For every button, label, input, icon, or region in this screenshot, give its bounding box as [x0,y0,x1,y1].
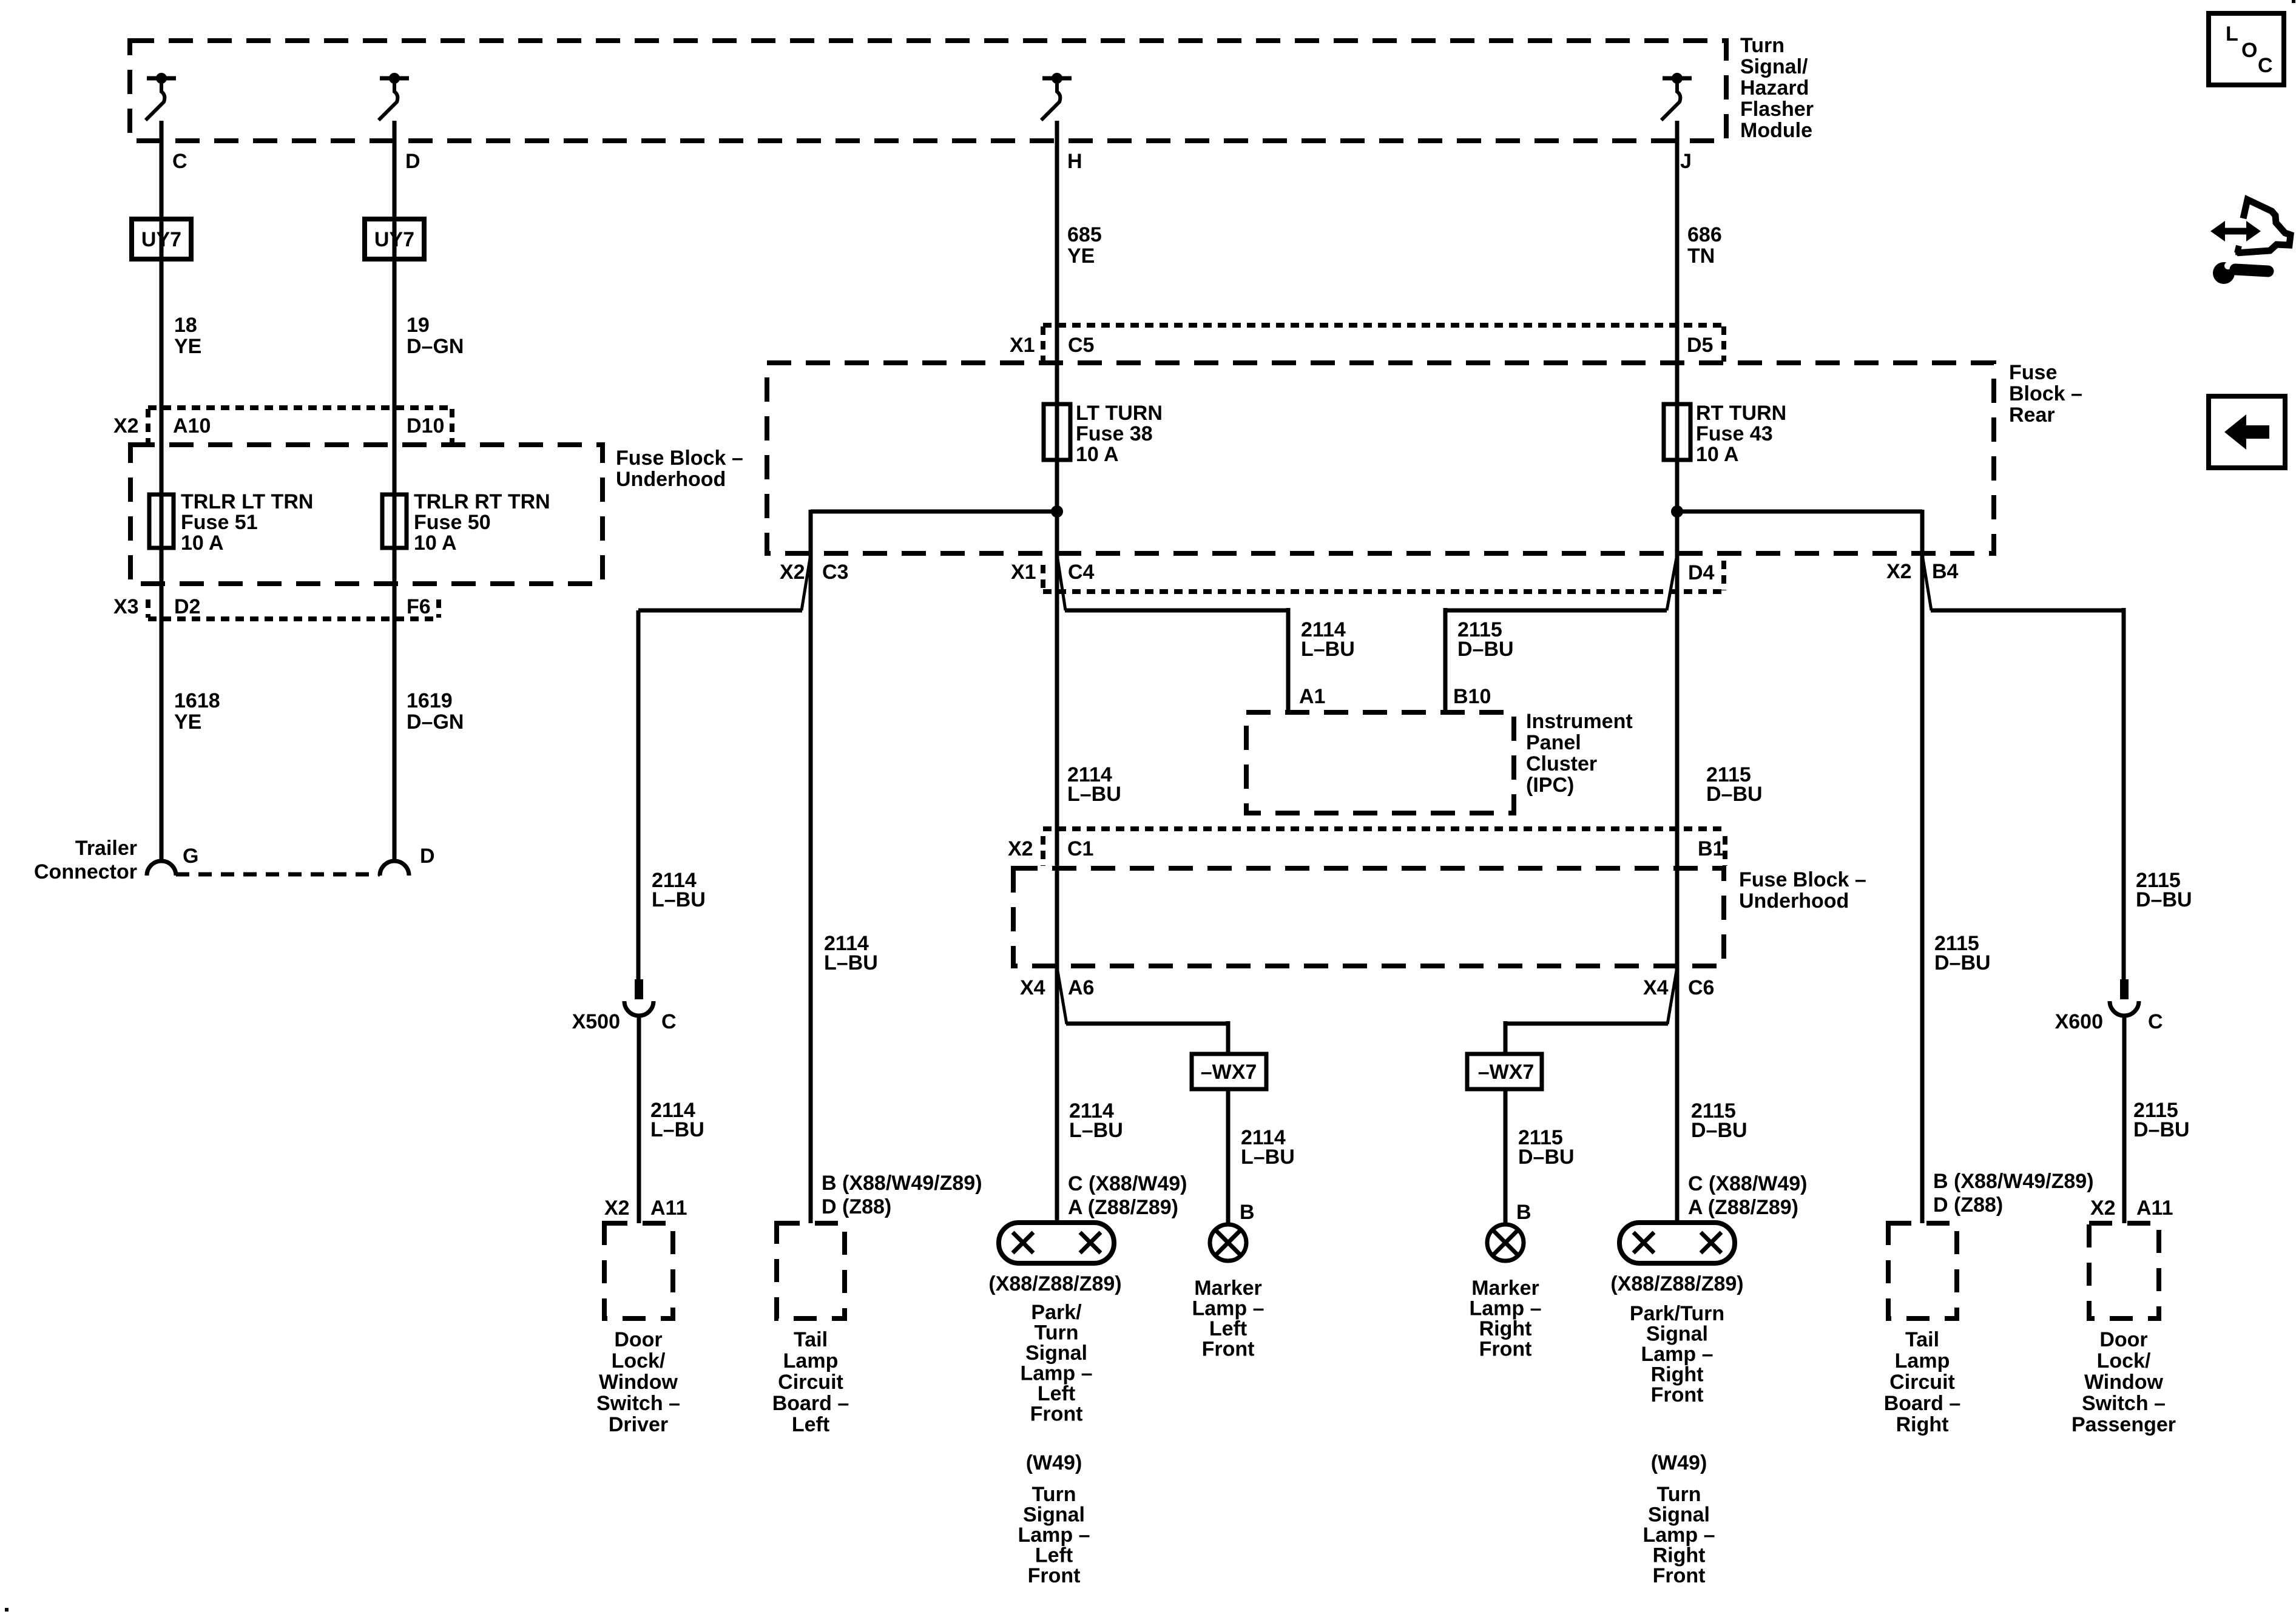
svg-text:Panel: Panel [1526,731,1581,754]
svg-text:L–BU: L–BU [1067,783,1121,806]
svg-text:Module: Module [1740,119,1812,142]
svg-text:YE: YE [174,335,201,358]
svg-text:C5: C5 [1068,334,1094,357]
svg-text:C (X88/W49): C (X88/W49) [1688,1172,1808,1195]
svg-text:Tail: Tail [794,1328,828,1351]
svg-text:Window: Window [2084,1371,2164,1394]
wire 2114 L-BU marker branch [1066,1022,1228,1026]
junction on wire 2115 [1671,505,1683,518]
svg-text:X3: X3 [113,595,139,618]
svg-text:Cluster: Cluster [1526,752,1597,775]
svg-text:F6: F6 [407,595,431,618]
svg-text:A11: A11 [650,1197,687,1220]
svg-text:B: B [1240,1201,1255,1224]
svg-text:Underhood: Underhood [1739,890,1849,913]
svg-text:D (Z88): D (Z88) [822,1195,891,1218]
svg-text:19: 19 [407,314,430,337]
Marker Lamp - Left Front symbol [1210,1224,1246,1261]
svg-text:C3: C3 [822,561,848,584]
svg-text:B10: B10 [1453,685,1491,708]
svg-text:L–BU: L–BU [1301,638,1355,661]
wire 2114 below X500 [637,1014,641,1223]
svg-text:Park/Turn: Park/Turn [1630,1302,1724,1325]
connector X2 row (A10 D10) [148,405,452,410]
wire 18 YE from pin C [160,121,164,861]
svg-text:YE: YE [174,711,201,734]
svg-text:G: G [183,845,198,868]
connector X1 pin D4 pass-through [1667,555,1677,610]
svg-text:D–BU: D–BU [2136,888,2192,911]
flasher module switch (pin C) [147,76,176,81]
svg-text:Rear: Rear [2009,403,2055,427]
svg-text:Signal: Signal [1025,1342,1087,1365]
svg-text:Door: Door [2099,1328,2147,1351]
svg-text:Board –: Board – [1884,1392,1961,1415]
svg-text:D5: D5 [1687,334,1713,357]
svg-text:Switch –: Switch – [2082,1392,2166,1415]
svg-text:Left: Left [1038,1382,1075,1405]
svg-text:D–BU: D–BU [2133,1118,2190,1141]
svg-text:X500: X500 [572,1010,620,1033]
svg-text:X2: X2 [2090,1197,2116,1220]
connector X4 pin C6 pass-through [1667,967,1677,1024]
option box UY7 (left) [132,219,191,259]
svg-text:Fuse 43: Fuse 43 [1696,422,1773,445]
svg-text:X4: X4 [1643,976,1669,999]
svg-text:Fuse 51: Fuse 51 [181,511,258,534]
svg-text:Block –: Block – [2009,382,2082,405]
connector X3 row (D2 F6) [148,616,439,621]
svg-text:A6: A6 [1068,976,1094,999]
Marker Lamp - Right Front symbol [1487,1224,1524,1261]
connector face / service icon [2210,221,2261,241]
svg-text:C4: C4 [1068,561,1095,584]
svg-text:D–BU: D–BU [1706,783,1763,806]
svg-text:D10: D10 [407,414,444,437]
svg-text:X600: X600 [2055,1010,2103,1033]
svg-text:Turn: Turn [1032,1483,1076,1506]
svg-text:C: C [661,1010,677,1033]
wire 685 YE from pin H [1055,121,1059,1223]
svg-text:Circuit: Circuit [1889,1371,1955,1394]
inline connector X600 [2120,979,2129,999]
svg-text:Instrument: Instrument [1526,710,1633,733]
svg-text:Lamp: Lamp [783,1349,839,1372]
svg-text:LT TURN: LT TURN [1076,402,1163,425]
wire 2115 D-BU to X600 [1931,609,2124,613]
svg-text:B (X88/W49/Z89): B (X88/W49/Z89) [1933,1170,2094,1193]
trailer connector cavity G symbol [147,861,176,876]
wire 19 D-GN from pin D [393,121,397,861]
svg-text:10 A: 10 A [1076,443,1119,466]
wire 686 TN from pin J [1675,121,1680,1223]
svg-text:A10: A10 [173,414,211,437]
svg-text:YE: YE [1067,245,1095,268]
svg-text:UY7: UY7 [374,228,414,251]
svg-text:X1: X1 [1011,561,1036,584]
svg-text:D–BU: D–BU [1457,638,1514,661]
svg-text:A (Z88/Z89): A (Z88/Z89) [1688,1196,1798,1219]
svg-text:(W49): (W49) [1651,1451,1707,1474]
svg-text:Flasher: Flasher [1740,98,1814,121]
svg-text:Right: Right [1651,1363,1704,1386]
svg-text:UY7: UY7 [141,228,181,251]
svg-text:Signal/: Signal/ [1740,55,1808,78]
svg-text:TRLR RT TRN: TRLR RT TRN [414,490,550,513]
svg-text:X4: X4 [1020,976,1045,999]
svg-text:686: 686 [1687,223,1722,246]
wire 2115 D-BU to IPC B10 [1445,609,1667,613]
svg-text:B (X88/W49/Z89): B (X88/W49/Z89) [822,1172,982,1195]
page mark top right [2292,0,2295,3]
Turn Signal/Hazard Flasher Module box [130,41,1726,141]
svg-text:Fuse 50: Fuse 50 [414,511,491,534]
connector X2 pin B4 pass-through [1922,555,1931,610]
svg-text:Right: Right [1479,1317,1532,1340]
fuse TRLR LT TRN Fuse 51 [149,495,174,548]
svg-text:TN: TN [1687,245,1715,268]
svg-text:Front: Front [1202,1338,1255,1361]
wire 2114 L-BU to X500 [638,609,802,613]
svg-text:X1: X1 [1010,334,1035,357]
svg-text:L: L [2226,22,2238,46]
svg-text:10 A: 10 A [181,532,224,555]
Fuse Block - Underhood box (left) [130,445,603,584]
svg-text:Door: Door [614,1328,662,1351]
svg-text:Board –: Board – [772,1392,849,1415]
svg-text:Tail: Tail [1905,1328,1939,1351]
fuse LT TURN Fuse 38 [1044,404,1070,460]
fuse TRLR RT TRN Fuse 50 [382,495,407,548]
svg-text:Right: Right [1896,1413,1949,1436]
flasher module switch (pin D) [380,76,409,81]
option box UY7 (right) [365,219,424,259]
connector X1 pin C4 pass-through [1057,555,1065,610]
svg-text:Signal: Signal [1023,1504,1085,1527]
svg-text:Right: Right [1653,1544,1706,1567]
svg-text:L–BU: L–BU [824,951,878,974]
svg-text:A11: A11 [2136,1197,2173,1220]
svg-text:H: H [1067,150,1082,173]
Fuse Block - Underhood box (right) [1013,868,1724,966]
fuse RT TURN Fuse 43 [1664,404,1690,460]
svg-text:Lamp: Lamp [1895,1349,1950,1372]
svg-text:D (Z88): D (Z88) [1933,1193,2003,1217]
svg-text:B1: B1 [1698,837,1724,860]
svg-text:Marker: Marker [1471,1277,1539,1300]
connector X2 pin C3 pass-through [802,555,811,610]
svg-text:Turn: Turn [1034,1322,1078,1345]
svg-text:D4: D4 [1688,561,1715,584]
splice -WX7 (left) [1192,1054,1266,1089]
wire 2115 D-BU below -WX7 [1504,1089,1508,1224]
svg-text:Lamp –: Lamp – [1469,1297,1541,1320]
svg-text:J: J [1680,150,1692,173]
svg-text:B: B [1516,1201,1531,1224]
svg-text:C (X88/W49): C (X88/W49) [1068,1172,1187,1195]
svg-text:L–BU: L–BU [1069,1119,1123,1142]
svg-text:X2: X2 [604,1197,630,1220]
svg-text:Front: Front [1653,1564,1706,1587]
svg-text:A (Z88/Z89): A (Z88/Z89) [1068,1196,1178,1219]
splice -WX7 (right) [1467,1054,1542,1089]
svg-text:A1: A1 [1299,685,1325,708]
svg-text:Circuit: Circuit [778,1371,843,1394]
svg-text:Connector: Connector [34,860,137,883]
svg-text:Trailer: Trailer [75,837,137,860]
svg-text:Front: Front [1651,1383,1704,1406]
svg-text:X2: X2 [113,414,139,437]
junction on wire 2114 [1051,505,1063,518]
Park/Turn Signal Lamp - Right Front symbol [1619,1223,1735,1263]
connector X4 pin A6 pass-through [1057,967,1067,1024]
wire 2114 L-BU below -WX7 [1226,1089,1231,1224]
svg-text:Left: Left [792,1413,829,1436]
wire 2114 branch to C3 [811,510,1057,514]
svg-text:Fuse 38: Fuse 38 [1076,422,1153,445]
svg-text:TRLR LT TRN: TRLR LT TRN [181,490,313,513]
svg-text:Lock/: Lock/ [2097,1349,2151,1372]
svg-text:D–BU: D–BU [1518,1146,1575,1169]
svg-text:Underhood: Underhood [616,468,726,491]
svg-text:Front: Front [1479,1338,1532,1361]
flasher module switch (pin H) [1042,76,1072,81]
svg-text:10 A: 10 A [1696,443,1739,466]
svg-text:D–BU: D–BU [1691,1119,1747,1142]
svg-text:Lock/: Lock/ [612,1349,666,1372]
svg-text:Lamp –: Lamp – [1018,1524,1090,1547]
svg-text:B4: B4 [1932,560,1959,583]
back arrow icon [2209,396,2285,468]
svg-text:C6: C6 [1688,976,1714,999]
svg-text:–WX7: –WX7 [1478,1061,1535,1084]
connector X2 row (C1 B1) [1043,826,1725,831]
svg-text:Left: Left [1035,1544,1073,1567]
svg-text:O: O [2241,39,2257,62]
svg-text:Fuse: Fuse [2009,361,2057,384]
Fuse Block - Rear box [767,363,1994,553]
inline connector X500 [635,979,643,999]
svg-text:C1: C1 [1067,837,1093,860]
wire 2115 branch to B4 [1677,510,1922,514]
svg-text:Hazard: Hazard [1740,76,1809,100]
trailer connector cavity D symbol [380,861,409,876]
svg-text:1619: 1619 [407,689,453,712]
svg-text:–WX7: –WX7 [1201,1061,1257,1084]
svg-text:RT TURN: RT TURN [1696,402,1786,425]
svg-text:D–GN: D–GN [407,335,464,358]
svg-text:(X88/Z88/Z89): (X88/Z88/Z89) [988,1272,1121,1295]
wire 2115 D-BU marker branch [1505,1022,1668,1026]
svg-text:C: C [172,150,187,173]
svg-text:L–BU: L–BU [1241,1146,1295,1169]
svg-text:D: D [405,150,420,173]
svg-text:(IPC): (IPC) [1526,774,1574,797]
flasher module switch (pin J) [1663,76,1692,81]
svg-text:D: D [420,845,435,868]
svg-text:C: C [2148,1010,2163,1033]
Instrument Panel Cluster box [1246,712,1514,813]
Park/Turn Signal Lamp - Left Front symbol [999,1223,1114,1263]
svg-text:1618: 1618 [174,689,220,712]
svg-text:Lamp –: Lamp – [1643,1524,1715,1547]
svg-text:18: 18 [174,314,197,337]
svg-text:X2: X2 [1008,837,1033,860]
svg-text:Front: Front [1030,1403,1083,1426]
svg-text:Fuse Block –: Fuse Block – [1739,868,1866,891]
svg-text:Left: Left [1209,1317,1247,1340]
svg-text:Lamp –: Lamp – [1020,1362,1092,1385]
connector X1 row (C5 D5) [1043,323,1724,328]
page mark bottom left [5,1608,8,1612]
svg-text:Passenger: Passenger [2071,1413,2176,1436]
Door Lock/Window Switch - Passenger box [2089,1223,2159,1318]
svg-text:L–BU: L–BU [652,888,706,911]
svg-text:D–GN: D–GN [407,711,464,734]
svg-text:D–BU: D–BU [1934,951,1991,974]
svg-text:Lamp –: Lamp – [1641,1343,1713,1366]
svg-text:(X88/Z88/Z89): (X88/Z88/Z89) [1610,1272,1743,1295]
svg-text:Driver: Driver [609,1413,668,1436]
svg-text:Fuse Block –: Fuse Block – [616,447,743,470]
svg-text:L–BU: L–BU [650,1118,704,1141]
svg-text:Window: Window [599,1371,678,1394]
Tail Lamp Circuit Board - Right box [1888,1223,1957,1318]
Tail Lamp Circuit Board - Left box [777,1223,845,1318]
svg-text:Turn: Turn [1740,34,1784,57]
svg-text:D2: D2 [174,595,200,618]
svg-text:Front: Front [1028,1564,1081,1587]
trailer connector outline [176,873,380,877]
svg-text:(W49): (W49) [1026,1451,1082,1474]
svg-text:X2: X2 [780,561,805,584]
svg-text:Lamp –: Lamp – [1192,1297,1264,1320]
svg-text:Marker: Marker [1194,1277,1262,1300]
svg-text:Switch –: Switch – [596,1392,680,1415]
connector X1 row (C4 D4) dotted line [1043,589,1724,594]
svg-text:Turn: Turn [1656,1483,1701,1506]
svg-text:10 A: 10 A [414,532,457,555]
svg-text:Signal: Signal [1646,1323,1708,1346]
svg-text:C: C [2258,54,2273,77]
svg-text:Signal: Signal [1648,1504,1710,1527]
svg-text:Park/: Park/ [1031,1301,1082,1324]
LOC legend icon [2209,13,2284,85]
wire 2114 L-BU to IPC A1 [1065,609,1288,613]
svg-text:685: 685 [1067,223,1102,246]
svg-text:X2: X2 [1886,560,1912,583]
wire 2115 below X600 [2122,1014,2127,1223]
Door Lock/Window Switch - Driver box [604,1223,673,1318]
